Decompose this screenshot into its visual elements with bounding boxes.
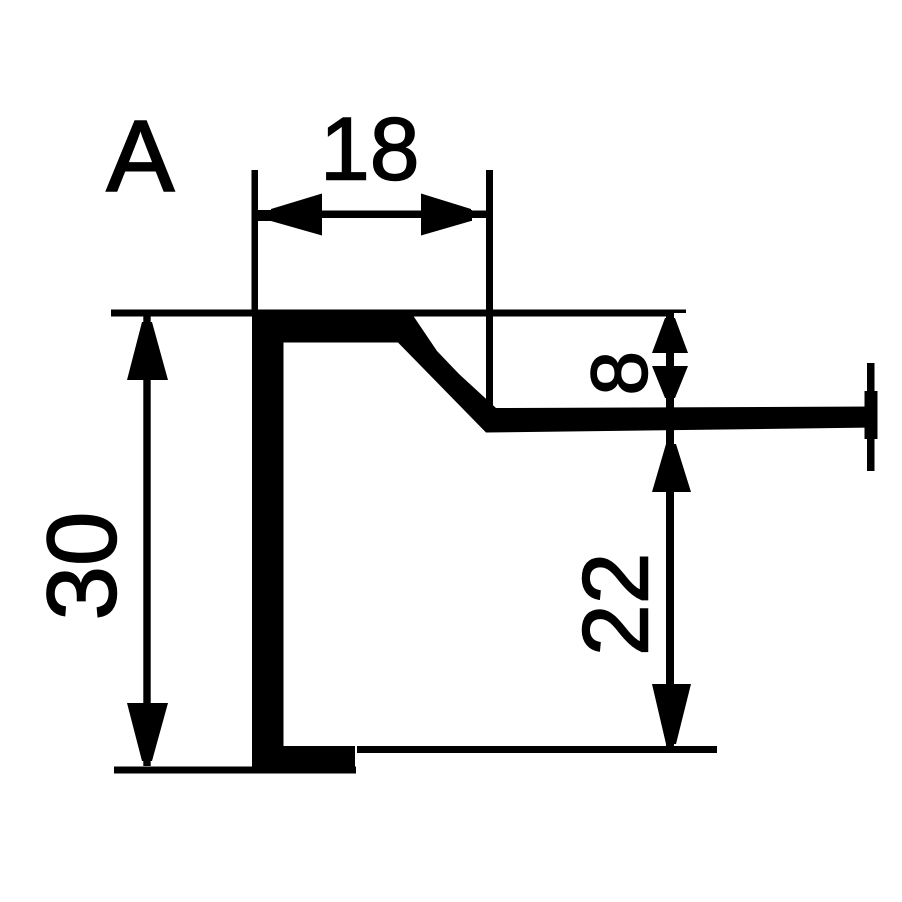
- arrow 30 top: [127, 322, 168, 380]
- extension line bottom-right (y 749.5): [357, 746, 717, 753]
- arrow 18 right: [421, 194, 471, 236]
- extension line 18 left: [252, 170, 259, 312]
- svg-text:8: 8: [575, 351, 664, 396]
- extension line top (y 313): [111, 310, 674, 317]
- arrow 8 up: [652, 318, 688, 353]
- svg-text:A: A: [107, 99, 175, 213]
- arrow 22 down: [652, 684, 691, 744]
- arrow 30 bottom: [127, 703, 168, 761]
- arrow 18 left: [271, 194, 322, 236]
- svg-text:22: 22: [564, 553, 668, 656]
- profile right end cap: [867, 363, 875, 471]
- arrow 8 down: [652, 366, 688, 398]
- extension line bottom-left (y 770): [114, 767, 356, 774]
- dimension line 8-22: [666, 313, 674, 749]
- arrow 22 up: [652, 444, 691, 492]
- dimension line 30: [143, 316, 150, 766]
- svg-text:30: 30: [27, 511, 137, 620]
- extension line 18 right: [486, 170, 493, 408]
- svg-text:18: 18: [320, 99, 420, 199]
- dimension line 18: [255, 211, 487, 219]
- profile cross-section body: [252, 311, 876, 770]
